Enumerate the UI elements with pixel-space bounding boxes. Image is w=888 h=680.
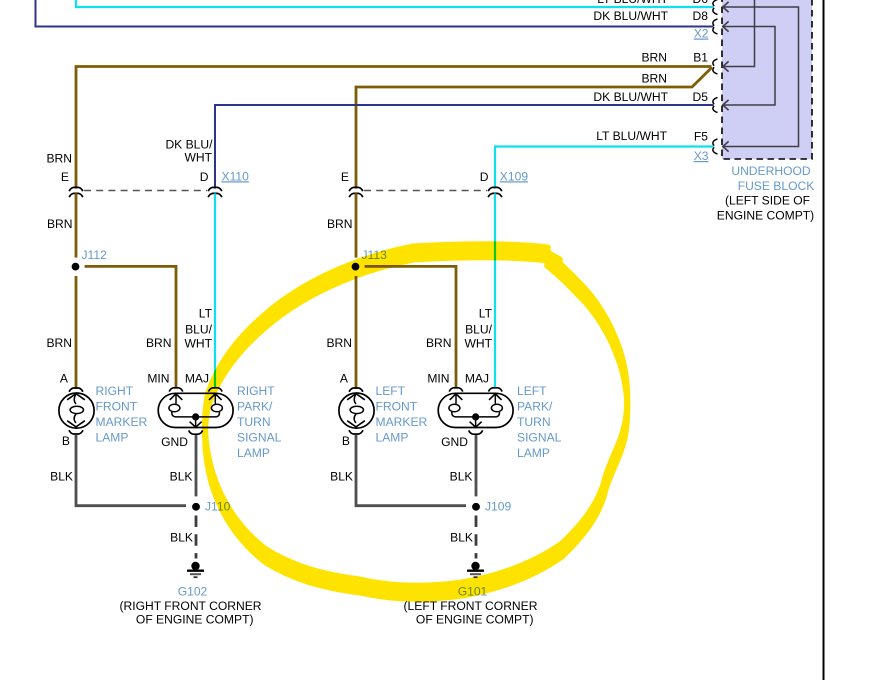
- connector X110 dashed line: [84, 190, 207, 192]
- connector X3: [694, 149, 709, 163]
- pin row1 (clipped): [693, 0, 709, 6]
- svg-text:BRN: BRN: [641, 72, 667, 86]
- svg-text:B: B: [342, 434, 350, 448]
- svg-text:BRN: BRN: [46, 151, 72, 165]
- wire LT BLU/WHT to MAJ: [494, 193, 496, 388]
- svg-text:SIGNAL: SIGNAL: [237, 431, 282, 445]
- park/turn lamp name line2: [517, 399, 553, 413]
- pin D5: [693, 90, 709, 104]
- pin D (X110): [200, 170, 209, 184]
- pin MAJ: [185, 372, 209, 386]
- svg-text:E: E: [61, 170, 69, 184]
- fuse block internal wire row1-to-F5: [723, 2, 799, 152]
- junction J110 dot: [192, 503, 200, 511]
- park/turn lamp name line3: [237, 415, 271, 429]
- park/turn lamp name line5: [517, 446, 550, 460]
- svg-text:DK BLU/: DK BLU/: [165, 137, 213, 151]
- connector X109 terminal D halves: [488, 187, 502, 197]
- wire BLK dashed J110 to G102: [195, 516, 198, 559]
- svg-text:B1: B1: [693, 51, 708, 65]
- svg-text:D6: D6: [693, 0, 709, 6]
- svg-text:(RIGHT FRONT CORNER: (RIGHT FRONT CORNER: [120, 599, 262, 613]
- svg-text:LAMP: LAMP: [376, 431, 409, 445]
- svg-text:MAJ: MAJ: [465, 372, 489, 386]
- pin D8: [693, 9, 709, 23]
- svg-text:F5: F5: [694, 130, 708, 144]
- wire LT BLU/WHT to F5 (cyan): [495, 147, 714, 189]
- svg-text:MARKER: MARKER: [376, 415, 428, 429]
- junction J109 name: [485, 500, 511, 514]
- svg-text:GND: GND: [161, 435, 188, 449]
- label BLU/ above MAJ: [465, 322, 493, 336]
- fuse block terminal row1 (cyan) connector arcs: [713, 0, 718, 15]
- label BRN below X110: [47, 217, 73, 231]
- label WHT above MAJ: [464, 336, 492, 350]
- svg-text:MIN: MIN: [147, 372, 169, 386]
- wire LT BLU/WHT top row (cyan) to fuse row1: [76, 0, 714, 7]
- label BRN (lower row): [641, 72, 667, 86]
- svg-text:X110: X110: [222, 169, 250, 183]
- park/turn lamp name line1: [237, 384, 275, 398]
- svg-text:A: A: [60, 372, 69, 386]
- svg-text:FRONT: FRONT: [376, 399, 418, 413]
- park/turn lamp name line4: [237, 431, 282, 445]
- pin B: [62, 434, 70, 448]
- svg-text:MIN: MIN: [427, 372, 449, 386]
- svg-text:LT: LT: [199, 306, 213, 320]
- svg-text:E: E: [341, 170, 349, 184]
- svg-text:TURN: TURN: [237, 415, 271, 429]
- svg-text:FUSE BLOCK: FUSE BLOCK: [738, 179, 815, 193]
- svg-text:BLK: BLK: [170, 470, 193, 484]
- page border line (right): [823, 0, 825, 680]
- pin D (X109): [480, 170, 489, 184]
- pin B1: [693, 51, 708, 65]
- svg-text:LAMP: LAMP: [96, 431, 129, 445]
- svg-text:BLK: BLK: [330, 470, 353, 484]
- junction J109 dot: [472, 503, 480, 511]
- svg-text:LT BLU/WHT: LT BLU/WHT: [597, 0, 668, 6]
- svg-text:BLK: BLK: [450, 470, 473, 484]
- svg-text:X3: X3: [694, 149, 709, 163]
- wire BRN to B1 (upper): [76, 67, 712, 189]
- svg-text:BLU/: BLU/: [185, 322, 213, 336]
- ground G102 name: [178, 584, 208, 598]
- caption G101 location line1: [404, 599, 538, 613]
- pin F5: [694, 130, 708, 144]
- svg-text:WHT: WHT: [184, 151, 212, 165]
- pin E (X110): [61, 170, 69, 184]
- label DK BLU/WHT (D8 row): [593, 9, 668, 23]
- wire BLK from GND to J109: [475, 435, 478, 496]
- svg-text:DK BLU/WHT: DK BLU/WHT: [593, 90, 668, 104]
- wire BRN to B1 (lower, diagonal): [356, 67, 712, 188]
- svg-text:LEFT: LEFT: [376, 384, 406, 398]
- fuse block internal wire B1-up: [723, 0, 755, 72]
- fuse block name line1: [731, 164, 811, 178]
- svg-text:WHT: WHT: [184, 336, 212, 350]
- fuse block terminal B1 connector arcs: [713, 59, 718, 74]
- park/turn lamp name line1: [517, 384, 547, 398]
- wire DK BLU/WHT to D8 (navy): [36, 0, 714, 27]
- connector X2: [694, 27, 709, 41]
- caption G101 location line2: [416, 613, 534, 627]
- svg-text:D5: D5: [693, 90, 709, 104]
- svg-text:A: A: [340, 372, 349, 386]
- marker lamp name line4: [96, 431, 129, 445]
- park/turn lamp name line2: [237, 399, 273, 413]
- junction J112 dot: [72, 263, 80, 271]
- junction J110 name: [205, 500, 231, 514]
- svg-text:BRN: BRN: [327, 217, 353, 231]
- connector X109 terminal E halves: [349, 187, 363, 197]
- ground G101 symbol: [467, 562, 484, 577]
- svg-text:RIGHT: RIGHT: [237, 384, 275, 398]
- label WHT above MAJ: [184, 336, 212, 350]
- pin MIN: [427, 372, 449, 386]
- label BLU/ above MAJ: [185, 322, 213, 336]
- wire BRN J113 column upper: [355, 193, 358, 257]
- svg-text:ENGINE COMPT): ENGINE COMPT): [717, 209, 814, 223]
- wire BRN branch J112 to MIN: [85, 266, 176, 388]
- park/turn lamp name line4: [517, 431, 562, 445]
- svg-text:X2: X2: [694, 27, 709, 41]
- park/turn lamp name line5: [237, 446, 270, 460]
- svg-text:J112: J112: [82, 248, 108, 262]
- label BRN below X109: [327, 217, 353, 231]
- svg-text:(LEFT SIDE OF: (LEFT SIDE OF: [725, 194, 810, 208]
- pin A: [60, 372, 69, 386]
- svg-text:LT BLU/WHT: LT BLU/WHT: [596, 129, 667, 143]
- wire BRN J113 column lower to marker lamp A: [355, 276, 358, 389]
- fuse block name line3: [725, 194, 810, 208]
- wire BRN branch J113 to MIN: [365, 266, 456, 388]
- marker lamp name line1: [96, 384, 134, 398]
- svg-text:DK BLU/WHT: DK BLU/WHT: [593, 9, 668, 23]
- lamp: left front marker lamp symbol: [339, 388, 374, 434]
- label LT above MAJ: [199, 306, 213, 320]
- svg-text:D8: D8: [693, 9, 709, 23]
- wire LT BLU/WHT to MAJ: [214, 193, 216, 388]
- label BRN above E (X110): [46, 151, 72, 165]
- label LT BLU/WHT (F5 row): [596, 129, 667, 143]
- svg-text:SIGNAL: SIGNAL: [517, 431, 562, 445]
- connector X109 dashed line: [364, 190, 487, 192]
- wire DK BLU/WHT to D5 (navy): [215, 105, 714, 189]
- junction J113 dot: [352, 263, 360, 271]
- svg-text:BRN: BRN: [641, 51, 667, 65]
- label BLK below GND: [450, 470, 473, 484]
- svg-text:OF ENGINE COMPT): OF ENGINE COMPT): [136, 613, 254, 627]
- marker lamp name line4: [376, 431, 409, 445]
- lamp: right park/turn signal lamp symbol: [158, 388, 233, 434]
- label BLK below GND: [170, 470, 193, 484]
- svg-text:BRN: BRN: [326, 336, 352, 350]
- svg-text:LEFT: LEFT: [517, 384, 547, 398]
- underhood fuse block body: [722, 0, 812, 159]
- fuse block name line2: [738, 179, 815, 193]
- fuse block terminal D8 connector arcs: [713, 19, 718, 34]
- marker lamp name line2: [376, 399, 418, 413]
- label BRN above MIN: [426, 336, 452, 350]
- svg-text:FRONT: FRONT: [96, 399, 138, 413]
- wire BLK from GND to J110: [195, 435, 198, 496]
- label BRN (B1 row): [641, 51, 667, 65]
- junction J113 name: [362, 248, 388, 262]
- svg-text:PARK/: PARK/: [237, 399, 273, 413]
- svg-text:BLK: BLK: [450, 531, 473, 545]
- label BRN above A: [46, 336, 72, 350]
- fuse block name line4: [717, 209, 814, 223]
- svg-text:WHT: WHT: [464, 336, 492, 350]
- svg-text:D: D: [480, 170, 489, 184]
- svg-text:BRN: BRN: [47, 217, 73, 231]
- svg-text:BLK: BLK: [170, 531, 193, 545]
- pin A: [340, 372, 349, 386]
- svg-text:LAMP: LAMP: [237, 446, 270, 460]
- label BRN above MIN: [146, 336, 172, 350]
- fuse block terminal F5 connector arcs: [713, 139, 718, 154]
- wire BLK dashed J109 to G101: [475, 516, 478, 559]
- ground G102 symbol: [187, 562, 204, 577]
- marker lamp name line3: [96, 415, 148, 429]
- connector X109 name: [500, 169, 529, 183]
- lamp: right front marker lamp symbol: [59, 388, 94, 434]
- pin B: [342, 434, 350, 448]
- svg-text:D: D: [200, 170, 209, 184]
- pin MIN: [147, 372, 169, 386]
- label wire row1 (clipped): [597, 0, 668, 6]
- svg-text:BRN: BRN: [46, 336, 72, 350]
- caption G102 location line2: [136, 613, 254, 627]
- label LT above MAJ: [479, 306, 493, 320]
- marker lamp name line2: [96, 399, 138, 413]
- caption G102 location line1: [120, 599, 262, 613]
- fuse block terminal D5 connector arcs: [713, 97, 718, 112]
- svg-text:BRN: BRN: [426, 336, 452, 350]
- svg-text:LT: LT: [479, 306, 493, 320]
- connector X110 name: [222, 169, 250, 183]
- label BLK above ground: [450, 531, 473, 545]
- svg-text:OF ENGINE COMPT): OF ENGINE COMPT): [416, 613, 534, 627]
- svg-text:B: B: [62, 434, 70, 448]
- lamp: left park/turn signal lamp symbol: [438, 388, 513, 434]
- label BRN above A: [326, 336, 352, 350]
- wire BLK from B to J109: [356, 435, 466, 506]
- svg-text:PARK/: PARK/: [517, 399, 553, 413]
- label DK BLU/WHT (D5 row): [593, 90, 668, 104]
- wire BLK from B to J110: [76, 435, 186, 506]
- connector X110 terminal D halves: [208, 187, 222, 197]
- pin E (X109): [341, 170, 349, 184]
- wire BRN J112 column upper: [75, 193, 78, 257]
- svg-text:J109: J109: [485, 500, 511, 514]
- label BLK below B: [330, 470, 353, 484]
- pin MAJ: [465, 372, 489, 386]
- connector X110 terminal E halves: [69, 187, 83, 197]
- pin GND: [441, 435, 468, 449]
- marker lamp name line3: [376, 415, 428, 429]
- svg-text:MAJ: MAJ: [185, 372, 209, 386]
- label BLK below B: [50, 470, 73, 484]
- svg-text:BRN: BRN: [146, 336, 172, 350]
- svg-text:X109: X109: [500, 169, 529, 183]
- pin GND: [161, 435, 188, 449]
- svg-text:MARKER: MARKER: [96, 415, 148, 429]
- wire BRN J112 column lower to marker lamp A: [75, 276, 78, 389]
- park/turn lamp name line3: [517, 415, 551, 429]
- svg-text:LAMP: LAMP: [517, 446, 550, 460]
- label WHT above D (X110): [184, 151, 212, 165]
- ground G101 name: [458, 584, 488, 598]
- yellow highlighter circle annotation: [205, 244, 627, 598]
- svg-text:RIGHT: RIGHT: [96, 384, 134, 398]
- svg-text:UNDERHOOD: UNDERHOOD: [731, 164, 811, 178]
- fuse block internal wire D8-to-D5: [723, 21, 775, 110]
- marker lamp name line1: [376, 384, 406, 398]
- label BLK above ground: [170, 531, 193, 545]
- svg-text:BLU/: BLU/: [465, 322, 493, 336]
- svg-text:BLK: BLK: [50, 470, 73, 484]
- svg-text:TURN: TURN: [517, 415, 551, 429]
- svg-text:G102: G102: [178, 584, 208, 598]
- label DK BLU/ above D (X110): [165, 137, 213, 151]
- svg-text:GND: GND: [441, 435, 468, 449]
- junction J112 name: [82, 248, 108, 262]
